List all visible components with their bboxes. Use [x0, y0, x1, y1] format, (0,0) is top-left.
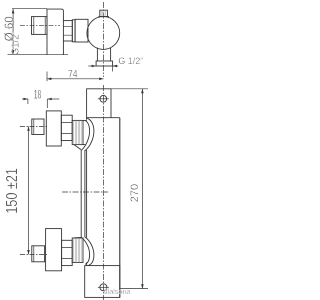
lower union centerline — [20, 253, 48, 255]
svg-text:G 1/2”: G 1/2” — [118, 56, 143, 66]
lower knurled union nut — [72, 238, 83, 263]
upper escutcheon — [46, 111, 61, 146]
knurled cap on top of knob — [98, 10, 109, 16]
horizontal centerline between unions — [62, 191, 108, 193]
bar separation line — [87, 117, 120, 119]
270 dimension — [111, 89, 148, 289]
top mounting hole — [98, 95, 109, 102]
outlet pipe below knob — [97, 48, 110, 62]
bar right edge — [119, 118, 121, 298]
svg-text:150 ±21: 150 ±21 — [4, 168, 21, 214]
knob circle (flow control knob, side view) — [87, 17, 120, 50]
svg-text:G1/2”: G1/2” — [11, 31, 22, 55]
lower hex nut — [62, 240, 73, 265]
svg-text:270: 270 — [129, 184, 141, 202]
lower union: handle cap square — [32, 246, 45, 262]
svg-text:74: 74 — [68, 69, 78, 81]
lower elbow from pipe — [85, 237, 94, 266]
centerline of knob axis (vertical dash-dot) — [103, 2, 105, 77]
hex nut between body and knob — [63, 21, 72, 41]
knob hub ring — [75, 19, 88, 42]
G 1/2 outlet dimension arrows — [88, 65, 118, 67]
supply pipe profile — [81, 150, 85, 238]
dia 60 dimension line — [8, 9, 69, 55]
handle centerline (horizontal dash-dot) — [20, 24, 60, 26]
svg-text:18: 18 — [34, 89, 42, 102]
vertical centerline of wall bar — [103, 85, 105, 300]
bottom mounting hole — [98, 284, 109, 291]
bar left edge segments — [86, 118, 88, 266]
mixer body (cylinder seen from side) — [47, 9, 63, 55]
upper bar edge above elbow — [86, 117, 88, 120]
upper knurled union nut — [72, 120, 83, 144]
flange edge extension line — [112, 66, 114, 72]
wall bar top block — [87, 89, 111, 118]
foot block — [85, 266, 120, 298]
150 +-21 dimension — [28, 126, 30, 254]
upper union centerline — [20, 125, 48, 127]
svg-text:tilalsonа: tilalsonа — [104, 287, 130, 296]
upper union: handle cap square — [32, 119, 44, 135]
18 dimension — [22, 99, 59, 108]
74 dimension line — [47, 72, 104, 82]
lower escutcheon — [46, 229, 62, 271]
outlet flange nut G1/2 — [96, 61, 113, 66]
temperature handle end cap — [32, 17, 48, 35]
upper hex nut — [61, 115, 72, 140]
upper elbow to pipe — [85, 118, 94, 150]
ring washer — [72, 20, 75, 42]
